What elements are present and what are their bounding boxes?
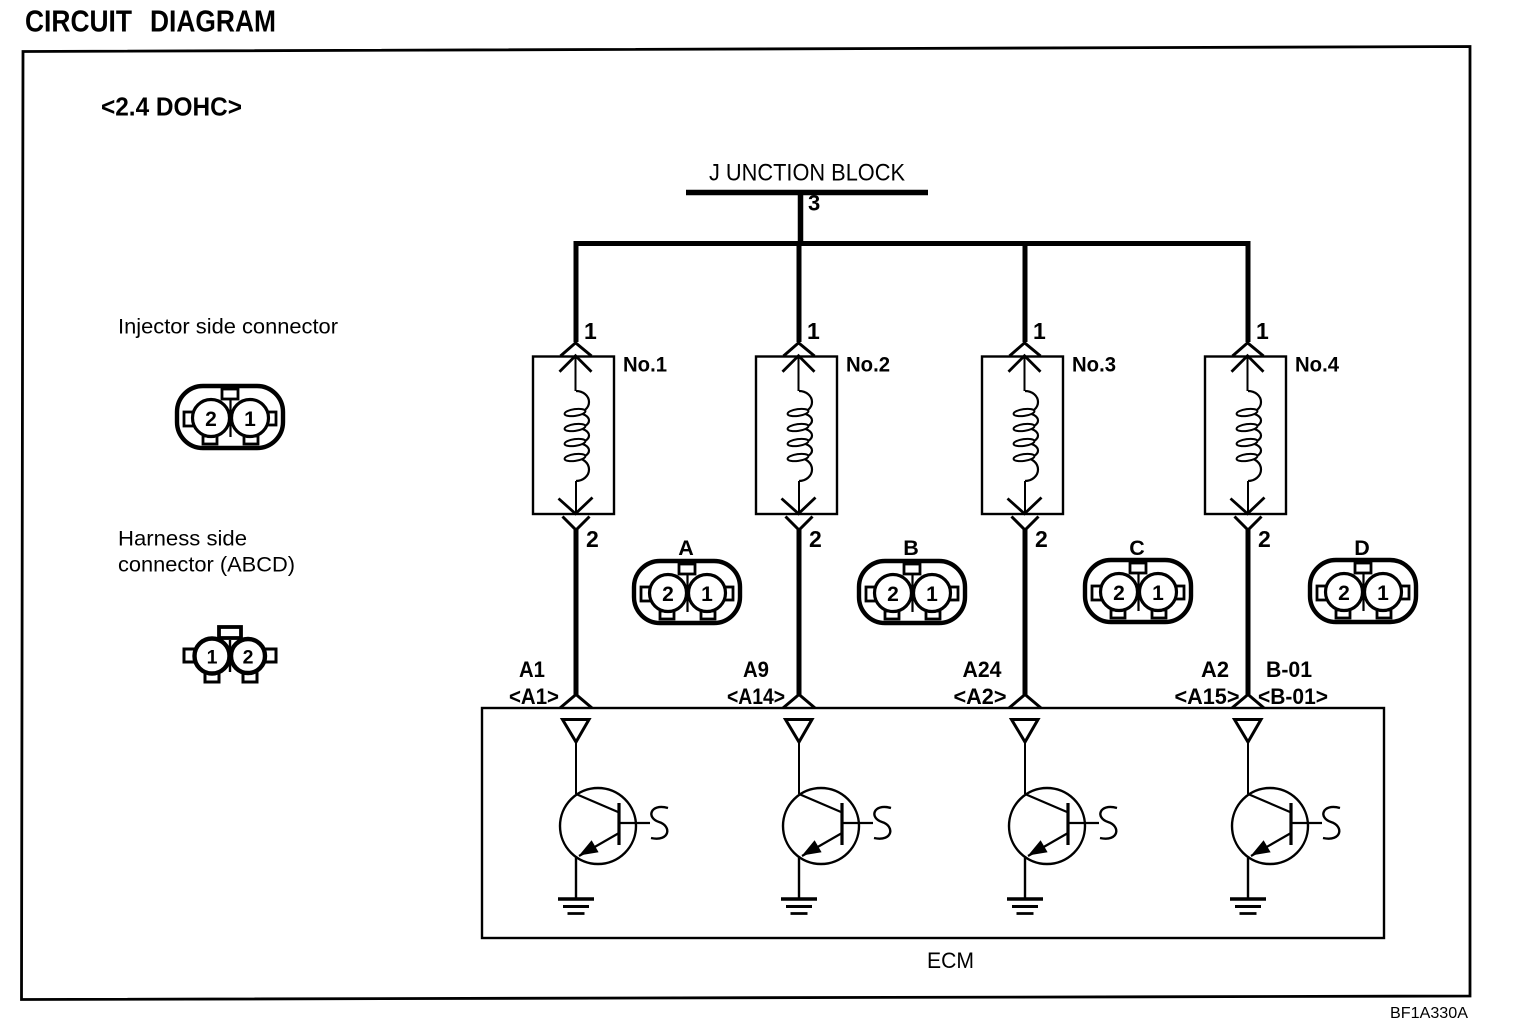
page title xyxy=(25,4,276,39)
svg-text:1: 1 xyxy=(1256,318,1269,344)
ECM pin label A1 xyxy=(509,657,559,709)
wire from injector No.4 pin 2 to ECM xyxy=(1246,528,1251,695)
svg-text:A9: A9 xyxy=(743,657,769,682)
pin number 1 label (No.4) xyxy=(1256,318,1269,344)
ECM input chevron for pin A9 xyxy=(783,695,815,709)
ground for Q1 xyxy=(558,899,594,914)
transistor Q4 xyxy=(1232,788,1340,898)
ECM box xyxy=(482,708,1384,938)
connector chevron at injector No.1 pin 1 xyxy=(561,343,592,356)
bus wire feeding the four injectors xyxy=(574,241,1251,246)
ground for Q4 xyxy=(1230,899,1266,914)
connector chevron at injector No.4 pin 2 xyxy=(1235,517,1262,531)
svg-text:2: 2 xyxy=(809,526,822,552)
svg-text:1: 1 xyxy=(926,583,938,606)
svg-text:1: 1 xyxy=(244,408,256,431)
injector No.3 label xyxy=(1072,353,1116,377)
svg-text:ECM: ECM xyxy=(927,948,974,973)
ECM input chevron for pin A24 xyxy=(1009,695,1041,709)
ECM internal input triangle for A24 xyxy=(1012,720,1039,795)
junction block name xyxy=(709,160,905,187)
svg-text:2: 2 xyxy=(243,647,254,669)
junction block pin 3 label xyxy=(808,191,820,216)
wire from bus to injector No.2 pin 1 xyxy=(797,244,802,343)
connector A label xyxy=(678,536,694,560)
ECM internal input triangle for A9 xyxy=(786,720,813,795)
transistor Q1 xyxy=(560,788,668,898)
svg-text:CIRCUIT: CIRCUIT xyxy=(25,4,132,39)
svg-text:2: 2 xyxy=(1338,582,1350,605)
pin number 2 label (No.1) xyxy=(586,526,599,552)
injector No.1 body box xyxy=(533,357,614,515)
injector No.2 label xyxy=(846,353,890,377)
svg-text:Injector side connector: Injector side connector xyxy=(118,315,338,339)
svg-text:2: 2 xyxy=(205,408,217,431)
svg-text:No.1: No.1 xyxy=(623,353,667,377)
svg-text:1: 1 xyxy=(584,318,597,344)
connector C label xyxy=(1129,536,1145,560)
junction block bar xyxy=(686,190,928,196)
svg-text:connector (ABCD): connector (ABCD) xyxy=(118,553,295,577)
svg-text:2: 2 xyxy=(662,583,674,606)
svg-text:A2: A2 xyxy=(1201,657,1229,682)
connector D symbol xyxy=(1310,560,1416,622)
svg-text:No.2: No.2 xyxy=(846,353,890,377)
svg-text:<B-01>: <B-01> xyxy=(1258,684,1328,709)
svg-text:3: 3 xyxy=(808,191,820,216)
wire from bus to injector No.1 pin 1 xyxy=(574,244,579,343)
connector chevron at injector No.2 pin 1 xyxy=(784,343,815,356)
ECM pin label A24 xyxy=(954,657,1007,709)
ECM input chevron for pin A1 xyxy=(560,695,592,709)
svg-text:<A2>: <A2> xyxy=(954,684,1007,709)
svg-text:No.3: No.3 xyxy=(1072,353,1116,377)
injector No.1 label xyxy=(623,353,667,377)
injector No.3 internal bottom arrow xyxy=(1008,481,1042,514)
ECM internal input triangle for A1 xyxy=(563,720,590,795)
injector No.1 internal bottom arrow xyxy=(559,481,593,514)
svg-text:2: 2 xyxy=(887,583,899,606)
figure code xyxy=(1390,1005,1469,1022)
svg-text:A: A xyxy=(678,536,694,560)
svg-text:<A15>: <A15> xyxy=(1175,684,1240,709)
ECM label xyxy=(927,948,974,973)
svg-text:No.4: No.4 xyxy=(1295,353,1339,377)
injector No.3 body box xyxy=(982,357,1063,515)
injector No.3 coil L3 xyxy=(1013,391,1038,481)
svg-text:1: 1 xyxy=(1152,582,1164,605)
svg-text:BF1A330A: BF1A330A xyxy=(1390,1005,1469,1022)
ground for Q2 xyxy=(781,899,817,914)
svg-text:2: 2 xyxy=(586,526,599,552)
svg-text:<A14>: <A14> xyxy=(727,684,785,709)
svg-text:D: D xyxy=(1354,536,1370,560)
pin number 2 label (No.3) xyxy=(1035,526,1048,552)
pin number 1 label (No.2) xyxy=(807,318,820,344)
wire from injector No.3 pin 2 to ECM xyxy=(1023,528,1028,695)
injector No.4 body box xyxy=(1205,357,1286,515)
wire from injector No.2 pin 2 to ECM xyxy=(797,528,802,695)
ground for Q3 xyxy=(1007,899,1043,914)
wire from junction block pin 3 to bus xyxy=(798,195,804,243)
svg-text:2: 2 xyxy=(1113,582,1125,605)
ECM input chevron for pin A2/B-01 xyxy=(1232,695,1264,709)
connector chevron at injector No.3 pin 2 xyxy=(1012,517,1039,531)
connector D label xyxy=(1354,536,1370,560)
legend: harness side connector symbol xyxy=(184,627,276,682)
svg-text:1: 1 xyxy=(1377,582,1389,605)
connector B symbol xyxy=(859,561,965,623)
svg-text:A1: A1 xyxy=(519,657,545,682)
ECM internal input triangle for A2/B-01 xyxy=(1235,720,1262,795)
injector No.2 internal bottom arrow xyxy=(782,481,816,514)
svg-text:1: 1 xyxy=(807,318,820,344)
legend: injector side connector caption xyxy=(118,315,338,339)
injector No.4 coil L4 xyxy=(1236,391,1261,481)
injector No.4 internal top arrow xyxy=(1232,356,1264,391)
connector chevron at injector No.4 pin 1 xyxy=(1233,343,1264,356)
transistor Q3 xyxy=(1009,788,1117,898)
svg-text:J UNCTION BLOCK: J UNCTION BLOCK xyxy=(709,160,905,187)
injector No.3 internal top arrow xyxy=(1009,356,1041,391)
connector chevron at injector No.1 pin 2 xyxy=(563,517,590,531)
connector injector-side symbol xyxy=(177,386,283,448)
svg-text:A24: A24 xyxy=(963,657,1003,682)
svg-text:C: C xyxy=(1129,536,1145,560)
wire from bus to injector No.3 pin 1 xyxy=(1023,244,1028,343)
svg-text:DIAGRAM: DIAGRAM xyxy=(150,4,276,39)
injector No.4 label xyxy=(1295,353,1339,377)
injector No.2 body box xyxy=(756,357,837,515)
pin number 1 label (No.1) xyxy=(584,318,597,344)
injector No.4 internal bottom arrow xyxy=(1231,481,1265,514)
connector B label xyxy=(903,536,919,560)
transistor Q2 xyxy=(783,788,891,898)
pin number 2 label (No.2) xyxy=(809,526,822,552)
svg-text:B: B xyxy=(903,536,919,560)
svg-text:<2.4 DOHC>: <2.4 DOHC> xyxy=(101,92,242,122)
svg-text:1: 1 xyxy=(1033,318,1046,344)
svg-text:B-01: B-01 xyxy=(1266,657,1312,682)
connector C symbol xyxy=(1085,560,1191,622)
connector chevron at injector No.3 pin 1 xyxy=(1010,343,1041,356)
wire from injector No.1 pin 2 to ECM xyxy=(574,528,579,695)
pin number 2 label (No.4) xyxy=(1258,526,1271,552)
injector No.1 coil L1 xyxy=(564,391,589,481)
injector No.2 internal top arrow xyxy=(783,356,815,391)
ECM pin label A2 xyxy=(1175,657,1240,709)
legend: harness side connector caption xyxy=(118,527,295,577)
engine variant label xyxy=(101,92,242,122)
connector A symbol xyxy=(634,561,740,623)
pin number 1 label (No.3) xyxy=(1033,318,1046,344)
svg-text:Harness side: Harness side xyxy=(118,527,247,551)
svg-text:1: 1 xyxy=(701,583,713,606)
svg-text:1: 1 xyxy=(207,647,218,669)
ECM pin label B-01 xyxy=(1258,657,1328,709)
svg-text:<A1>: <A1> xyxy=(509,684,559,709)
svg-text:2: 2 xyxy=(1258,526,1271,552)
injector No.1 internal top arrow xyxy=(560,356,592,391)
connector chevron at injector No.2 pin 2 xyxy=(786,517,813,531)
wire from bus to injector No.4 pin 1 xyxy=(1246,244,1251,343)
injector No.2 coil L2 xyxy=(787,391,812,481)
svg-text:2: 2 xyxy=(1035,526,1048,552)
ECM pin label A9 xyxy=(727,657,785,709)
